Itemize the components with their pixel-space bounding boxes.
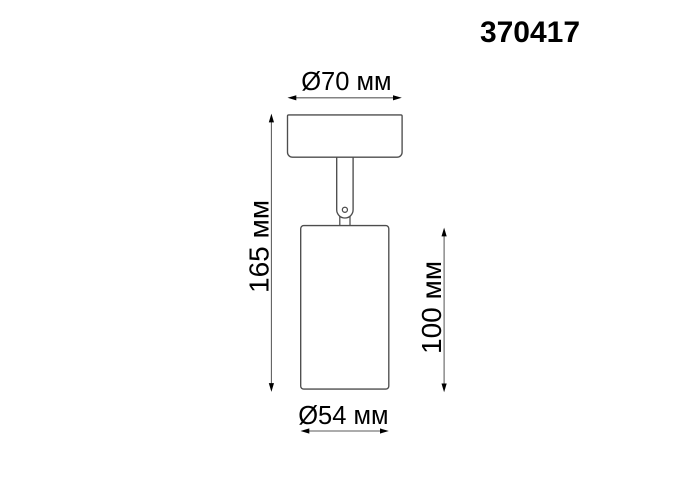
svg-text:100 мм: 100 мм <box>416 261 447 354</box>
svg-text:Ø54 мм: Ø54 мм <box>298 402 388 430</box>
svg-text:165 мм: 165 мм <box>243 200 274 293</box>
svg-text:Ø70 мм: Ø70 мм <box>301 68 391 96</box>
svg-text:370417: 370417 <box>480 16 580 49</box>
